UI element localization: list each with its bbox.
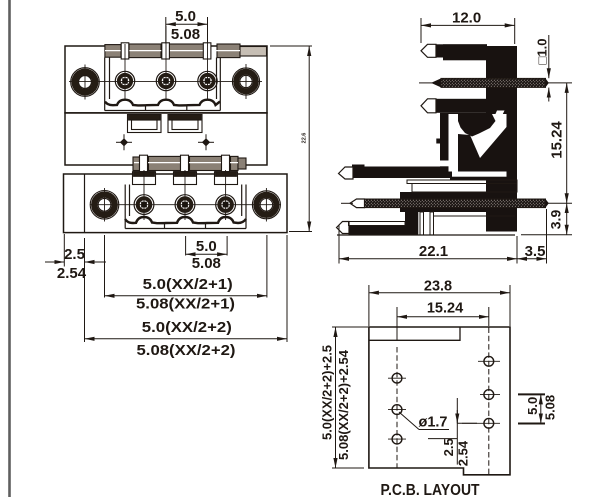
svg-text:5.08(XX/2+2)+2.54: 5.08(XX/2+2)+2.54 [336, 349, 351, 460]
svg-text:5.08: 5.08 [171, 26, 200, 43]
svg-text:5.0: 5.0 [525, 397, 540, 415]
svg-text:15.24: 15.24 [427, 301, 463, 317]
svg-text:2.54: 2.54 [456, 440, 471, 466]
svg-text:2.5: 2.5 [441, 438, 456, 456]
svg-text:5.08(XX/2+2): 5.08(XX/2+2) [137, 342, 236, 359]
svg-text:12.0: 12.0 [452, 10, 481, 27]
svg-text:5.0(XX/2+2)+2.5: 5.0(XX/2+2)+2.5 [320, 345, 335, 440]
svg-text:5.08: 5.08 [192, 255, 221, 272]
svg-text:5.0(XX/2+2): 5.0(XX/2+2) [142, 319, 232, 336]
svg-text:22.1: 22.1 [419, 243, 448, 260]
svg-text:P.C.B. LAYOUT: P.C.B. LAYOUT [381, 482, 480, 499]
svg-text:5.0(XX/2+1): 5.0(XX/2+1) [143, 276, 233, 293]
svg-text:5.0: 5.0 [196, 238, 217, 255]
svg-text:23.8: 23.8 [424, 279, 452, 295]
svg-text:2.54: 2.54 [57, 265, 87, 282]
svg-text:5.08(XX/2+1): 5.08(XX/2+1) [136, 296, 235, 313]
svg-text:5.0: 5.0 [175, 8, 196, 25]
svg-text:22.6: 22.6 [302, 133, 308, 144]
svg-text:3.5: 3.5 [525, 243, 546, 260]
svg-text:□1.0: □1.0 [535, 39, 550, 65]
svg-text:2.5: 2.5 [64, 246, 85, 263]
svg-text:5.08: 5.08 [543, 395, 558, 420]
svg-text:15.24: 15.24 [549, 121, 566, 159]
svg-text:3.9: 3.9 [548, 210, 564, 230]
svg-text:ø1.7: ø1.7 [418, 415, 447, 431]
